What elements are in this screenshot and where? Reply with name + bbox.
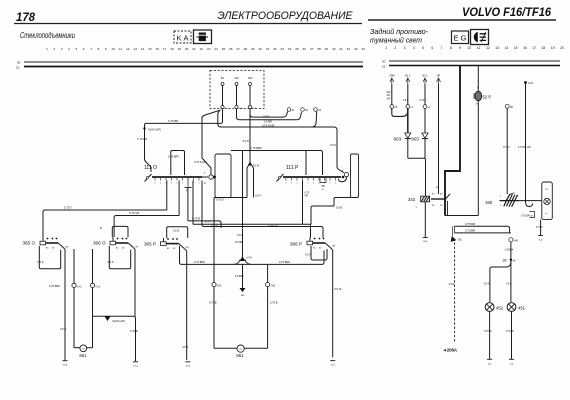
svg-text:3: 3 (61, 47, 63, 51)
wire branch down x202 (202, 110, 221, 175)
rail BR upper (454, 226, 509, 233)
terminal bar B-B (423, 238, 428, 244)
harness arrow B1.1 (405, 75, 411, 85)
svg-text:1.5 B: 1.5 B (449, 283, 455, 286)
wire 41W legs to rail (214, 197, 247, 199)
wire 111P pin up to rail (305, 151, 307, 176)
svg-text:29: 29 (251, 47, 255, 51)
svg-text:7: 7 (441, 46, 443, 50)
svg-text:17B: 17B (65, 247, 69, 249)
svg-text:0.75 BR: 0.75 BR (137, 137, 147, 141)
rail BR lower (454, 232, 511, 234)
svg-text:O41: O41 (271, 285, 276, 288)
switch 111P contact bar (283, 176, 341, 178)
svg-text:0.5 P: 0.5 P (108, 260, 114, 264)
svg-text:6: 6 (83, 47, 85, 51)
svg-text:41A5 (AP): 41A5 (AP) (112, 319, 125, 323)
svg-text:DR: DR (437, 75, 441, 78)
svg-text:17B: 17B (332, 246, 336, 248)
terminal bar 366P (330, 360, 335, 362)
svg-text:GR: GR (305, 195, 309, 198)
wire stub B2.1 (420, 84, 427, 105)
fuse box 11 dashed enclosure (210, 71, 264, 109)
terminal bar (185, 361, 190, 363)
svg-text:0.5 R: 0.5 R (263, 115, 269, 119)
svg-text:2: 2 (500, 205, 502, 207)
svg-text:+B: +B (394, 107, 397, 109)
svg-text:86: 86 (432, 205, 435, 207)
fuse F3 (248, 76, 257, 110)
wire feed rail to 52P (445, 215, 478, 217)
wire fuse bus to connector 43 and switch feed (218, 111, 344, 173)
svg-text:23: 23 (207, 47, 211, 51)
svg-text:m: m (82, 348, 84, 351)
switch 365P upper loop (167, 227, 188, 238)
svg-text:0.75 BR: 0.75 BR (168, 119, 178, 123)
svg-text:15: 15 (16, 66, 20, 70)
switch 111O upper loop (171, 151, 185, 176)
svg-text:44: 44 (361, 47, 365, 51)
svg-text:1: 1 (385, 46, 387, 50)
wire rail 0.75 GR to switch 366O (114, 216, 179, 238)
svg-text:13: 13 (133, 47, 137, 51)
svg-text:661: 661 (79, 353, 87, 358)
svg-text:11: 11 (477, 46, 481, 50)
wire x242.5 vertical (242, 151, 244, 229)
svg-text:1: 1 (182, 183, 184, 185)
svg-text:158: 158 (485, 200, 493, 205)
relay box right (351, 154, 359, 198)
svg-text:10-4: 10-4 (133, 366, 138, 368)
motor 661 left (74, 345, 93, 352)
svg-text:10-4: 10-4 (186, 366, 191, 368)
wire coil to terminal B-B (424, 202, 426, 238)
left bus line 15 (16, 66, 363, 70)
svg-text:◄208A: ◄208A (443, 348, 458, 353)
svg-text:14: 14 (505, 46, 509, 50)
pin symbol below 111O bar (185, 178, 192, 192)
lamp symbol in box (544, 189, 550, 215)
svg-text:1: 1 (291, 183, 293, 185)
svg-text:1: 1 (329, 183, 331, 185)
svg-text:O+2: O+2 (77, 285, 82, 288)
svg-text:A1 B: A1 B (528, 82, 533, 85)
svg-text:B2: B2 (122, 248, 125, 250)
svg-text:0.75 BR#: 0.75 BR# (465, 223, 476, 226)
svg-text:1: 1 (171, 183, 173, 185)
window lifter icon box (194, 30, 212, 44)
wire stub DR long (436, 84, 439, 194)
svg-text:14: 14 (141, 47, 145, 51)
svg-text:366 O: 366 O (93, 241, 106, 246)
svg-text:B1: B1 (313, 248, 316, 250)
svg-text:0.5 BR: 0.5 BR (235, 240, 243, 244)
rear fog light icon box (471, 30, 489, 45)
svg-text:VOLVO F16/TF16: VOLVO F16/TF16 (462, 7, 552, 19)
svg-text:1: 1 (160, 183, 162, 185)
harness arrow B2.1 (423, 75, 429, 85)
svg-text:6: 6 (431, 46, 433, 50)
switch 111P lever (277, 174, 284, 182)
svg-text:B-B: B-B (423, 241, 427, 243)
pin bracket right (530, 212, 535, 218)
svg-text:0.75 GR: 0.75 GR (268, 224, 278, 228)
svg-text:10: 10 (467, 46, 471, 50)
junction 360 (503, 258, 517, 262)
wire junction left branch (490, 261, 511, 303)
svg-text:10-B: 10-B (63, 365, 68, 367)
svg-text:5-4: 5-4 (539, 240, 543, 242)
switch 365O contacts (46, 238, 69, 250)
wire 4B to junction 360 (510, 242, 512, 258)
terminal bar (133, 361, 138, 363)
svg-text:ЭЛЕКТРООБОРУДОВАНИЕ: ЭЛЕКТРООБОРУДОВАНИЕ (218, 10, 354, 22)
svg-text:0.75 BR#: 0.75 BR# (49, 284, 60, 288)
svg-text:0.5 BR#: 0.5 BR# (235, 275, 244, 278)
svg-text:O+1: O+1 (96, 285, 101, 288)
svg-text:43: 43 (354, 47, 358, 51)
svg-text:2: 2 (54, 47, 56, 51)
fuse F1 (221, 76, 230, 110)
svg-text:3: 3 (404, 46, 406, 50)
svg-text:K: K (177, 34, 182, 43)
wire box bottom left (334, 198, 351, 207)
node 41W split (247, 162, 260, 198)
ground below 41W (240, 264, 246, 297)
switch 366O body (110, 237, 116, 245)
svg-text:18: 18 (170, 47, 174, 51)
svg-text:343: 343 (408, 197, 416, 202)
lamp unit box (542, 182, 553, 220)
switch 366P under loop (311, 246, 327, 260)
svg-text:1: 1 (500, 196, 502, 198)
svg-text:8A: 8A (221, 76, 224, 80)
svg-text:0.75 BL-GR: 0.75 BL-GR (518, 146, 531, 149)
svg-text:B2: B2 (319, 248, 322, 250)
svg-text:31: 31 (266, 47, 270, 51)
wire pin to rail R (187, 188, 189, 221)
svg-text:0.5 P: 0.5 P (38, 260, 44, 264)
relay 343 coil (421, 196, 430, 202)
svg-text:+2: +2 (410, 107, 413, 109)
relay 343 contact (431, 194, 450, 208)
svg-text:1: 1 (154, 183, 156, 185)
wire fuse2 straight down to node 41W (249, 109, 251, 163)
svg-text:30: 30 (440, 205, 443, 207)
svg-text:B2.1: B2.1 (423, 75, 429, 78)
svg-text:B: B (322, 189, 324, 191)
wire 0.5B to 366P feed (311, 206, 334, 224)
svg-text:0.75 B: 0.75 B (270, 301, 278, 305)
svg-text:20: 20 (185, 47, 189, 51)
svg-text:0.75 R-GR: 0.75 R-GR (194, 160, 207, 164)
switch 366O upper loop (112, 226, 128, 237)
wire pin to rail GR (178, 181, 180, 216)
connector circle 42 (72, 283, 82, 288)
EG code box (452, 31, 469, 44)
svg-text:36: 36 (503, 259, 507, 263)
svg-text:38: 38 (317, 47, 321, 51)
svg-text:E: E (454, 34, 459, 43)
svg-text:G: G (461, 34, 467, 43)
switch 111P pin ticks (285, 178, 337, 185)
svg-text:0.75 BR#: 0.75 BR# (465, 230, 476, 233)
connector pins right of 111O (202, 173, 216, 186)
svg-text:19: 19 (551, 46, 555, 50)
wire diode feed right (424, 108, 426, 132)
svg-text:16: 16 (155, 47, 159, 51)
svg-text:B: B (546, 213, 548, 215)
wire motor2 left riser (213, 198, 215, 346)
svg-text:0.75 BR#: 0.75 BR# (279, 260, 290, 264)
lamp 452 (485, 303, 494, 312)
svg-text:42: 42 (305, 108, 308, 112)
svg-text:12: 12 (126, 47, 130, 51)
svg-text:25: 25 (222, 47, 226, 51)
svg-text:m: m (240, 348, 242, 351)
switch 365P contacts (166, 238, 189, 250)
right bus line 30 (382, 60, 560, 64)
svg-text:+4B: +4B (514, 241, 519, 243)
wire rail 0.5 T to switch 366P (193, 223, 311, 225)
wire 366O lever down to rail (134, 248, 136, 317)
svg-text:A10: A10 (387, 91, 392, 94)
wire motor1 left (73, 249, 75, 346)
svg-text:17B: 17B (185, 247, 189, 249)
svg-text:0.75 F: 0.75 F (503, 146, 510, 149)
svg-text:1: 1 (176, 183, 178, 185)
connector circle 43 (314, 108, 322, 112)
svg-text:30: 30 (382, 60, 386, 64)
svg-text:12: 12 (486, 46, 490, 50)
terminal 6-3 right (509, 359, 514, 365)
svg-text:0.5 F: 0.5 F (403, 100, 409, 102)
svg-text:37: 37 (310, 47, 314, 51)
svg-text:1: 1 (307, 183, 309, 185)
motor 661 right (214, 345, 268, 352)
svg-text:661: 661 (236, 353, 244, 358)
svg-text:41: 41 (339, 47, 343, 51)
wire 365P lever down (184, 248, 187, 360)
connector circle 41 (90, 283, 100, 288)
svg-text:C+2: C+2 (239, 108, 244, 110)
svg-text:0.5 T: 0.5 T (205, 220, 212, 224)
harness arrow DR (437, 75, 441, 85)
svg-text:5: 5 (76, 47, 78, 51)
svg-text:22: 22 (200, 47, 204, 51)
svg-text:CRM: CRM (389, 75, 394, 78)
connector circle 42 (301, 108, 309, 112)
svg-text:A: A (184, 34, 189, 43)
svg-text:36: 36 (302, 47, 306, 51)
wire branch to connector 43 (312, 111, 317, 127)
svg-text:19: 19 (178, 47, 182, 51)
svg-text:1: 1 (335, 183, 337, 185)
relay box 117 (215, 154, 231, 198)
svg-text:32: 32 (273, 47, 277, 51)
connector hook wire (339, 177, 347, 182)
switch 365O under loop (39, 246, 60, 269)
wire A1B down (525, 84, 527, 203)
wire 158 to lamp box (519, 200, 542, 202)
svg-text:OR: OR (387, 95, 391, 97)
svg-text:B: B (476, 104, 478, 106)
svg-text:0.75 BR: 0.75 BR (521, 215, 530, 218)
svg-text:7: 7 (90, 47, 92, 51)
svg-text:0.75 K: 0.75 K (420, 100, 427, 102)
svg-text:+1: +1 (428, 107, 431, 109)
svg-text:6-3: 6-3 (488, 363, 492, 365)
svg-text:178: 178 (16, 12, 36, 24)
wire pin to rail T (166, 181, 168, 211)
svg-text:18: 18 (542, 46, 546, 50)
svg-text:21: 21 (192, 47, 196, 51)
header rule left (14, 23, 362, 25)
wire A1B hook (526, 202, 533, 207)
wire lamp box out (540, 220, 542, 236)
svg-text:30: 30 (17, 61, 21, 65)
node 41W mid (234, 229, 253, 264)
wire 111P pin down x302.5 (302, 181, 304, 225)
wire diode feed left (bold) (407, 108, 409, 132)
svg-text:0.5 W: 0.5 W (335, 287, 342, 291)
wire motor1 right / ground rail riser (92, 249, 94, 346)
svg-text:26: 26 (229, 47, 233, 51)
terminal bar 5-4 (538, 236, 543, 242)
svg-text:43: 43 (318, 108, 321, 112)
mid rail to 366P (180, 246, 325, 264)
svg-text:9: 9 (105, 47, 107, 51)
svg-text:85: 85 (440, 194, 443, 196)
svg-text:11: 11 (119, 47, 122, 51)
wire fuse2 to connector 42 (237, 109, 302, 120)
svg-text:1: 1 (285, 183, 287, 185)
svg-text:Стеклоподъемники: Стеклоподъемники (20, 31, 75, 40)
switch 111O lever (145, 174, 152, 182)
connector circle 48 (390, 105, 398, 109)
wire fuse1 to left rail (144, 109, 222, 129)
svg-text:41: 41 (292, 108, 295, 112)
svg-text:0.75 F: 0.75 F (536, 226, 543, 229)
svg-text:30: 30 (258, 47, 262, 51)
svg-text:87: 87 (204, 183, 207, 185)
svg-text:B1: B1 (116, 248, 119, 250)
svg-text:10-4: 10-4 (331, 364, 336, 366)
wire 52P down (477, 101, 479, 216)
connector circle 42 (406, 105, 414, 109)
svg-text:4: 4 (413, 46, 415, 50)
section title right (370, 27, 428, 45)
sensor 52 P body (474, 88, 482, 106)
harness destination label (443, 348, 458, 353)
svg-text:B1.1: B1.1 (405, 75, 411, 78)
connector circle 41 (423, 105, 431, 109)
svg-text:0.5 #: 0.5 # (330, 143, 336, 147)
svg-text:B2: B2 (173, 248, 176, 250)
connector circle 111P right (342, 171, 352, 179)
svg-text:366 P: 366 P (290, 242, 302, 247)
diode output join rail (408, 158, 426, 196)
svg-text:4: 4 (68, 47, 70, 51)
svg-text:1.5 BR#: 1.5 BR# (505, 249, 514, 252)
wire diode left out (407, 139, 409, 159)
svg-text:6-3: 6-3 (510, 363, 514, 365)
diode 903 left (405, 133, 411, 139)
wire relay top rail (231, 151, 323, 176)
svg-text:0.5 F: 0.5 F (255, 194, 261, 198)
svg-text:17B: 17B (135, 247, 139, 249)
connector circle 4B top (505, 104, 513, 109)
svg-text:40: 40 (332, 47, 336, 51)
svg-text:9: 9 (459, 46, 461, 50)
svg-text:10: 10 (111, 47, 115, 51)
wire 366P lever down (331, 248, 333, 358)
svg-text:B: B (100, 226, 102, 230)
wire fuse3 to connector 41 (250, 109, 288, 118)
wire stub CRM (387, 84, 392, 105)
svg-text:15A: 15A (248, 76, 253, 80)
svg-text:8: 8 (450, 46, 452, 50)
svg-text:B2: B2 (52, 248, 55, 250)
svg-text:0.75 BR#: 0.75 BR# (194, 260, 205, 264)
svg-text:0.5 K: 0.5 K (506, 283, 512, 286)
node 41A3 (AP) (143, 127, 161, 131)
switch 366P contacts (313, 238, 336, 250)
svg-text:903: 903 (394, 137, 402, 142)
svg-text:365 P: 365 P (144, 242, 156, 247)
svg-text:0.5 B: 0.5 B (173, 229, 179, 233)
svg-text:8: 8 (98, 47, 100, 51)
svg-text:1: 1 (198, 183, 200, 185)
wire rail 0.75 T to switch 365O (43, 210, 167, 237)
svg-text:35: 35 (295, 47, 299, 51)
svg-text:41 W: 41 W (253, 164, 260, 168)
node 41A5 (AP) (105, 316, 125, 323)
svg-text:13: 13 (495, 46, 499, 50)
wire rail to terminal 10-4 (134, 316, 136, 361)
svg-text:1: 1 (313, 183, 315, 185)
svg-text:0.5 K: 0.5 K (484, 283, 490, 286)
header rule right (368, 19, 556, 21)
svg-text:0.75 R-GR: 0.75 R-GR (262, 124, 275, 128)
svg-text:111 O: 111 O (144, 165, 157, 171)
connector circle 4B lower (509, 238, 519, 243)
wire rail 0.5 R to switch 366P right (202, 181, 323, 238)
svg-text:1: 1 (46, 47, 48, 51)
svg-text:0.75 T: 0.75 T (64, 206, 72, 210)
fuse F2 (234, 76, 243, 110)
node A1B dot (524, 81, 533, 85)
ground rail 41A5 (93, 315, 134, 317)
svg-text:ʏ: ʏ (416, 205, 418, 209)
svg-text:0.75 W: 0.75 W (506, 330, 514, 333)
svg-text:41A3 (AP): 41A3 (AP) (148, 128, 161, 132)
svg-text:0.75 GR: 0.75 GR (129, 211, 139, 215)
wire lamp452 down (489, 311, 491, 359)
page number 178 (16, 12, 36, 24)
svg-text:5: 5 (422, 46, 424, 50)
wire diode right out (424, 139, 426, 159)
svg-text:903: 903 (411, 137, 419, 142)
svg-text:111 P: 111 P (286, 165, 299, 171)
node 41B1 arrow (451, 226, 463, 242)
svg-text:+2 W: +2 W (246, 257, 252, 260)
svg-text:0.5 P: 0.5 P (305, 253, 311, 257)
svg-text:17: 17 (163, 47, 167, 51)
wire junction right branch (510, 261, 512, 303)
svg-text:0.75 B: 0.75 B (216, 198, 224, 202)
svg-text:451: 451 (518, 306, 526, 311)
